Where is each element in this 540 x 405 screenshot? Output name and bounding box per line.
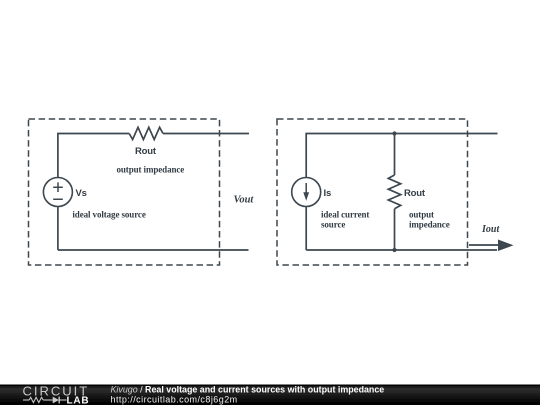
wire: bottom rail (Vout-) (58, 249, 249, 251)
wire: Vs top up and across to resistor (58, 134, 129, 178)
Iout current arrow shaft (469, 244, 500, 246)
svg-text:impedance: impedance (409, 220, 450, 230)
resistor Rout (right, vertical zigzag) (388, 175, 400, 209)
voltage source Vs (43, 178, 72, 207)
svg-text:output: output (409, 210, 434, 220)
junction node (bottom of Rout) (392, 248, 396, 252)
junction node (top of Rout) (392, 131, 396, 135)
logo schematic: wire to diode (43, 399, 53, 401)
footer bar background (0, 385, 540, 405)
current source Is (292, 178, 321, 207)
wire: Is bottom down (305, 207, 307, 251)
wire: Vs bottom down (57, 207, 59, 251)
svg-text:Vout: Vout (234, 195, 255, 206)
right enclosure dashed box (real current source) (277, 119, 468, 265)
svg-text:Rout: Rout (135, 146, 157, 157)
left enclosure dashed box (real voltage source) (29, 119, 220, 265)
current source arrow head (down) (303, 192, 309, 200)
wire: bottom rail of current source circuit (306, 249, 497, 251)
svg-text:ideal voltage source: ideal voltage source (72, 210, 145, 220)
logo schematic: diode triangle (53, 397, 59, 404)
svg-text:Vs: Vs (76, 188, 87, 199)
resistor Rout (left, horizontal zigzag) (129, 127, 163, 139)
svg-text:Iout: Iout (481, 224, 500, 235)
logo schematic: wire to LAB (59, 399, 66, 401)
svg-text:Kivugo / Real voltage and curr: Kivugo / Real voltage and current source… (111, 385, 385, 395)
svg-text:output impedance: output impedance (117, 165, 185, 175)
wire: resistor to right output (Vout+) (163, 133, 249, 135)
svg-text:http://circuitlab.com/c8j6g2m: http://circuitlab.com/c8j6g2m (111, 395, 238, 405)
svg-text:source: source (321, 220, 345, 230)
Iout current arrow head (498, 240, 514, 252)
logo schematic: diode cathode bar (58, 397, 60, 404)
wire: Is top up and across top rail (306, 134, 497, 178)
logo schematic: resistor zigzag (29, 397, 43, 402)
svg-text:LAB: LAB (67, 396, 90, 405)
wire: resistor bottom lead (394, 209, 396, 250)
wire: resistor top lead (394, 134, 396, 176)
svg-text:ideal current: ideal current (321, 210, 369, 220)
svg-text:Rout: Rout (404, 188, 426, 199)
svg-text:Is: Is (324, 188, 332, 199)
logo schematic: lead wire (23, 399, 29, 401)
